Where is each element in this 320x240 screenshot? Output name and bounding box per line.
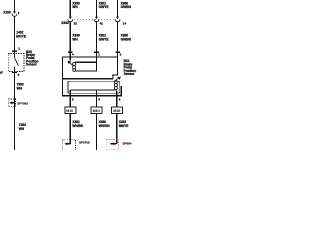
- svg-text:ad: ad: [0, 71, 3, 75]
- svg-text:GN/BN: GN/BN: [121, 5, 132, 9]
- svg-text:WH/BK: WH/BK: [72, 124, 83, 128]
- svg-text:WH: WH: [19, 127, 25, 131]
- svg-text:41: 41: [100, 21, 104, 25]
- svg-text:GN/YE: GN/YE: [99, 37, 109, 41]
- svg-text:14: 14: [123, 21, 127, 25]
- svg-text:M4G: M4G: [113, 109, 121, 113]
- svg-text:GN/YE: GN/YE: [99, 5, 109, 9]
- svg-text:Sensor: Sensor: [26, 63, 38, 67]
- svg-text:Sensor: Sensor: [124, 72, 136, 76]
- svg-text:GN/BN: GN/BN: [121, 37, 132, 41]
- svg-text:WH: WH: [72, 37, 78, 41]
- svg-text:X106: X106: [3, 11, 11, 15]
- svg-text:WH: WH: [72, 5, 78, 9]
- svg-text:X383: X383: [61, 21, 69, 25]
- svg-text:M4G: M4G: [93, 109, 101, 113]
- svg-text:WH/GN: WH/GN: [99, 124, 111, 128]
- svg-text:BN/YE: BN/YE: [119, 124, 129, 128]
- svg-text:32: 32: [74, 21, 78, 25]
- svg-text:M10: M10: [66, 109, 73, 113]
- svg-text:SP7063: SP7063: [17, 102, 28, 106]
- svg-text:SP894: SP894: [122, 141, 131, 145]
- svg-text:SP0708: SP0708: [79, 140, 90, 144]
- svg-text:BK/YE: BK/YE: [16, 34, 26, 38]
- svg-text:WH: WH: [17, 86, 23, 90]
